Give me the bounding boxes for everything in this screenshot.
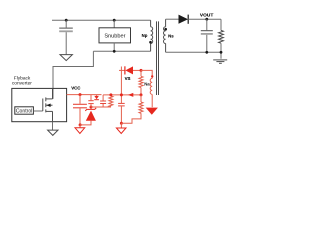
wire primary bottom rail xyxy=(93,50,150,52)
wire source below box xyxy=(52,122,54,130)
svg-text:Np: Np xyxy=(142,33,148,38)
wire snubber top stub xyxy=(113,20,115,28)
ground VS cap xyxy=(116,128,126,134)
node input-cap junction xyxy=(65,19,68,22)
node snubber-top junction xyxy=(113,19,116,22)
wire zener to cap bottom xyxy=(80,121,91,125)
node VCC cap bottom xyxy=(79,123,82,126)
resistor RS2 xyxy=(139,95,143,113)
diode small startup xyxy=(94,95,99,100)
wire diode to load xyxy=(188,18,221,20)
transistor Q1 MOSFET xyxy=(43,88,53,121)
wire VCC rail xyxy=(67,94,102,96)
diode zener VCC clamp xyxy=(85,107,96,121)
wire divider bottom link xyxy=(121,113,141,123)
resistor load xyxy=(219,19,224,59)
node VCC cap junction xyxy=(79,93,82,96)
transformer secondary winding Ns xyxy=(164,19,168,52)
transistor body arrow xyxy=(46,104,50,108)
capacitor series small xyxy=(88,95,93,107)
node snubber-bottom junction xyxy=(113,50,116,53)
control box xyxy=(15,107,34,115)
wire VS vertical xyxy=(120,67,122,104)
wire aux top xyxy=(141,70,152,78)
label Flyback converter xyxy=(12,75,32,86)
node Ra top xyxy=(109,93,112,96)
svg-text:VOUT: VOUT xyxy=(200,13,213,19)
node VOUT junction xyxy=(205,18,208,21)
svg-text:VS: VS xyxy=(125,76,131,81)
wire snubber bottom stub xyxy=(113,43,115,51)
snubber box xyxy=(99,28,131,43)
wire drain step xyxy=(53,51,93,99)
svg-text:Snubber: Snubber xyxy=(104,33,125,39)
svg-text:Control: Control xyxy=(16,109,32,115)
node output-cap bottom xyxy=(205,51,208,54)
ground VCC cap xyxy=(75,128,85,134)
transformer primary winding Np xyxy=(149,20,153,51)
wire output return xyxy=(166,51,221,53)
wire VS net top xyxy=(103,94,141,96)
ground output earth xyxy=(213,60,227,63)
ground MOSFET source xyxy=(48,130,58,135)
arrow VS sense xyxy=(128,93,133,97)
node VS wire junction xyxy=(120,93,123,96)
svg-text:VCC: VCC xyxy=(71,85,81,90)
node cap B bottom xyxy=(120,122,123,125)
wire secondary top xyxy=(166,18,179,20)
wire capB gnd stub xyxy=(120,123,122,128)
transformer aux winding Na xyxy=(150,75,153,107)
resistor RS1 xyxy=(139,70,143,95)
svg-text:Flyback: Flyback xyxy=(14,75,31,81)
resistor Ra xyxy=(109,95,113,107)
wire gate xyxy=(33,110,42,112)
node divider mid xyxy=(140,93,143,96)
transformer core xyxy=(157,21,159,95)
node zener top xyxy=(90,106,93,109)
diode output rectifier xyxy=(179,15,189,24)
flyback converter box xyxy=(12,88,67,121)
diode VCC rectifier xyxy=(119,66,141,74)
node load bottom xyxy=(220,51,223,54)
wire cap bottom stub xyxy=(79,125,81,128)
capacitor VS filter B xyxy=(118,103,125,123)
capacitor Cin xyxy=(59,20,73,54)
ground aux winding xyxy=(146,108,158,115)
svg-text:Ns: Ns xyxy=(168,33,174,38)
wire input rail xyxy=(52,19,151,21)
node aux diode junction xyxy=(140,69,143,72)
svg-text:Na: Na xyxy=(144,81,150,86)
capacitor VCC xyxy=(73,95,87,125)
capacitor VS filter A xyxy=(100,95,106,107)
svg-text:converter: converter xyxy=(12,81,32,87)
wire node row xyxy=(91,106,111,108)
ground input-cap xyxy=(60,55,72,61)
capacitor Cout xyxy=(201,19,213,52)
